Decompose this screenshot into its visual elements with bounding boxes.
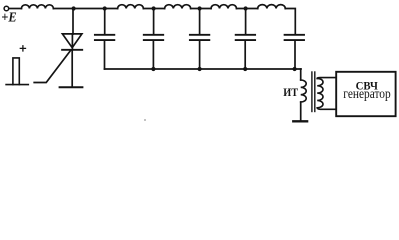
trigger pulse plus sign xyxy=(20,46,25,51)
capacitor C3 bottom wire xyxy=(199,41,201,69)
node C2 top xyxy=(152,6,156,10)
pulse transformer IT primary winding xyxy=(301,80,307,102)
capacitor C3 top plate xyxy=(190,34,209,36)
node C2 bottom xyxy=(151,67,155,71)
node C4 top xyxy=(244,6,248,10)
transformer primary bottom wire xyxy=(300,102,302,120)
bottom bus wire xyxy=(105,68,302,70)
capacitor C2 bottom plate xyxy=(144,39,163,41)
capacitor C4 bottom wire xyxy=(244,41,246,69)
inductor L4 (3 turns) xyxy=(211,5,237,9)
capacitor C5 bottom wire xyxy=(294,41,296,69)
node C3 bottom xyxy=(198,67,202,71)
capacitor C4 top plate xyxy=(236,34,255,36)
capacitor C5 bottom plate xyxy=(285,39,304,41)
capacitor C2 top wire xyxy=(153,9,155,34)
thyristor VS cathode wire down xyxy=(71,51,73,87)
transformer core line 1 xyxy=(311,72,313,112)
wire L5 to top-right corner, down to C5 xyxy=(285,9,295,34)
pulse transformer IT secondary winding xyxy=(317,78,323,107)
wire L2 to L3 xyxy=(143,8,164,10)
trigger pulse symbol baseline xyxy=(6,84,28,86)
box SVCh generator xyxy=(336,72,395,116)
inductor L5 (3 turns) xyxy=(258,5,286,9)
thyristor VS cathode bar xyxy=(62,49,82,51)
capacitor C1 top plate xyxy=(95,34,114,36)
capacitor C2 bottom wire xyxy=(152,41,154,69)
thyristor VS center wire through triangle xyxy=(71,34,73,50)
trigger pulse symbol rectangle xyxy=(13,58,19,85)
transformer secondary top lead xyxy=(317,77,336,80)
speck artifact xyxy=(144,119,146,121)
svg-text:ИТ: ИТ xyxy=(283,87,298,99)
capacitor C1 bottom wire xyxy=(104,41,106,69)
capacitor C4 bottom plate xyxy=(236,39,255,41)
inductor L2 (3 turns) xyxy=(118,5,144,9)
thyristor VS bottom bar xyxy=(60,86,83,88)
wire L3 to L4 xyxy=(191,8,211,10)
capacitor C5 top plate xyxy=(285,34,304,36)
ground bar under transformer xyxy=(293,120,307,122)
transformer core line 2 xyxy=(314,72,316,112)
wire L1 to C1 node xyxy=(53,8,117,10)
thyristor VS gate lead xyxy=(34,50,70,82)
inductor L3 (3 turns) xyxy=(165,5,191,9)
svg-text:+E: +E xyxy=(1,10,16,25)
node C4 bottom xyxy=(243,67,247,71)
capacitor C1 top wire xyxy=(104,9,106,34)
capacitor C2 top plate xyxy=(144,34,163,36)
capacitor C4 top wire xyxy=(245,9,247,34)
thyristor VS anode wire xyxy=(72,9,74,35)
terminal +E xyxy=(4,6,9,11)
wire L4 to L5 xyxy=(237,8,258,10)
inductor L1 (4 turns) xyxy=(21,5,53,9)
node C5 bottom xyxy=(293,67,297,71)
capacitor C3 top wire xyxy=(199,9,201,34)
svg-text:генератор: генератор xyxy=(343,86,391,101)
capacitor C3 bottom plate xyxy=(190,39,209,41)
node thyristor tap xyxy=(72,6,76,10)
capacitor C1 bottom plate xyxy=(95,39,114,41)
node C1 top xyxy=(103,6,107,10)
thyristor VS triangle xyxy=(62,34,82,48)
transformer secondary bottom lead xyxy=(317,108,336,110)
wire bus corner down to transformer primary xyxy=(300,69,302,80)
wire terminal to L1 xyxy=(9,8,22,10)
node C3 top xyxy=(198,6,202,10)
